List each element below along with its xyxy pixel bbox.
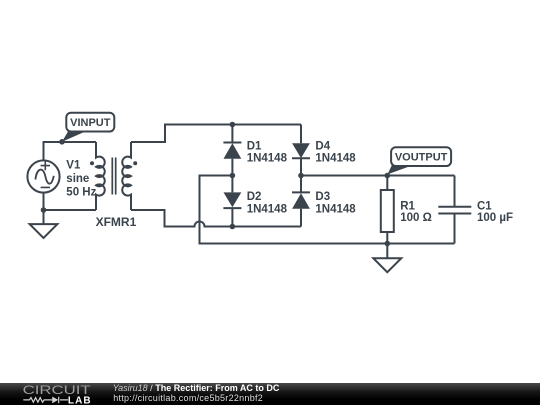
svg-text:XFMR1: XFMR1 — [96, 215, 137, 229]
svg-text:R1: R1 — [400, 201, 415, 213]
svg-text:VINPUT: VINPUT — [70, 117, 111, 129]
svg-text:1N4148: 1N4148 — [247, 152, 288, 164]
svg-text:D3: D3 — [315, 191, 330, 203]
svg-text:VOUTPUT: VOUTPUT — [395, 151, 448, 163]
svg-text:1N4148: 1N4148 — [315, 152, 356, 164]
svg-text:1N4148: 1N4148 — [315, 203, 356, 215]
svg-text:D2: D2 — [247, 191, 262, 203]
svg-text:D4: D4 — [315, 141, 330, 153]
svg-text:D1: D1 — [247, 141, 262, 153]
svg-text:V1: V1 — [66, 159, 81, 171]
svg-text:C1: C1 — [477, 201, 492, 213]
svg-text:100 Ω: 100 Ω — [400, 212, 432, 224]
svg-text:100 µF: 100 µF — [477, 212, 513, 224]
svg-text:sine: sine — [66, 173, 89, 185]
svg-text:50 Hz: 50 Hz — [66, 187, 96, 199]
svg-text:1N4148: 1N4148 — [247, 203, 288, 215]
svg-text:LAB: LAB — [68, 395, 92, 405]
